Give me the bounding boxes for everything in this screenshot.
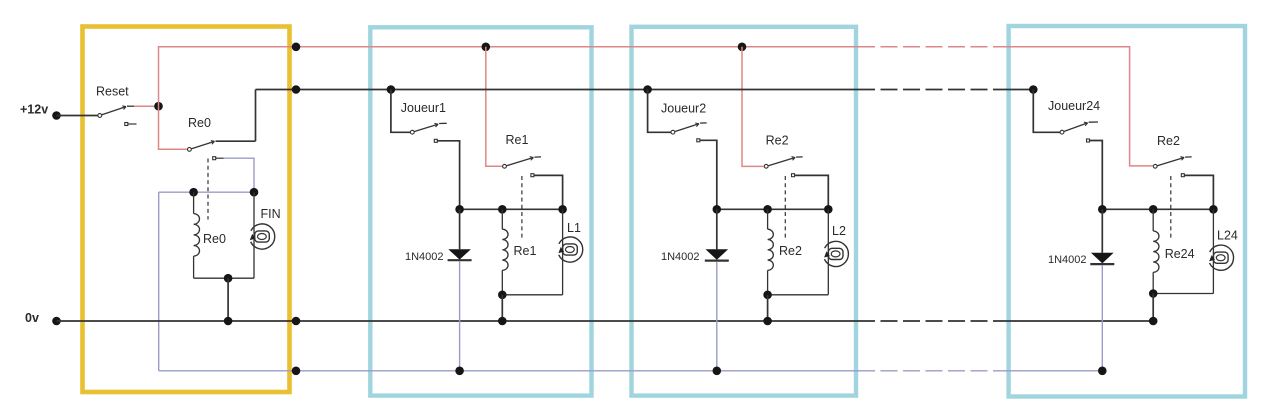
svg-text:Reset: Reset <box>96 85 129 99</box>
wire Re2 contact to lamp branch <box>1184 175 1213 209</box>
wire blue Re0 contact link <box>224 158 255 192</box>
wire loop top bar Joueur2 <box>717 208 829 210</box>
module frame box Reset/Re0 (yellow) <box>83 27 290 393</box>
lamp L24 <box>1210 245 1234 270</box>
svg-text:Re0: Re0 <box>203 232 226 246</box>
node 0v terminal <box>52 317 61 326</box>
wire black rail dashed <box>858 89 1006 91</box>
wire FIN lamp branch <box>253 192 255 278</box>
switch Reset <box>98 114 102 118</box>
node 0v junction Re0 <box>224 317 233 326</box>
wire lamp branch L1 <box>562 209 564 294</box>
node lamp top Joueur24 <box>1209 205 1218 214</box>
switch relay contact Re1 <box>503 164 507 168</box>
node FIN lamp top <box>250 188 259 197</box>
wire red +12v rail into Joueur24 box <box>1006 47 1153 166</box>
node loop bottom Joueur2 <box>763 291 772 300</box>
node coil top Joueur2 <box>763 205 772 214</box>
wire Joueur1 switch feed <box>391 90 411 133</box>
wire loop bottom bar Joueur24 <box>1153 293 1213 295</box>
wire coil to 0v Joueur2 <box>767 295 769 321</box>
node loop bottom Joueur24 <box>1149 289 1158 298</box>
wire blue bottom bus solid <box>159 370 858 372</box>
wire red +12v rail solid <box>158 46 858 48</box>
svg-text:+12v: +12v <box>20 103 48 117</box>
wire black rail into Joueur24 box <box>1006 89 1033 91</box>
svg-text:Re2: Re2 <box>766 134 789 148</box>
wire Joueur2 contact to diode branch <box>700 140 717 209</box>
node black rail junction x296 <box>292 85 301 94</box>
module frame box Joueur1 (cyan) <box>370 27 591 395</box>
diode 1N4002 Joueur1 <box>459 209 461 249</box>
node Re0 coil top <box>189 188 198 197</box>
wire coil to 0v Joueur24 <box>1152 294 1154 322</box>
node coil top Joueur1 <box>498 205 507 214</box>
wire red +12v rail dashed <box>858 46 1006 48</box>
node diode to blue bus Joueur2 <box>713 367 722 376</box>
node loop bottom Joueur1 <box>498 291 507 300</box>
wire Joueur2 switch feed <box>648 90 671 133</box>
mechanical link dashed Re0 <box>207 159 209 220</box>
wire blue bottom bus into Joueur24 box <box>1006 370 1102 372</box>
node diode top Joueur24 <box>1098 205 1107 214</box>
svg-text:Re2: Re2 <box>1157 134 1180 148</box>
switch Joueur1 <box>410 130 414 134</box>
wire Re1 contact to lamp branch <box>534 175 563 209</box>
svg-text:1N4002: 1N4002 <box>1048 254 1087 266</box>
switch relay contact Re2 <box>764 164 768 168</box>
node black rail junction Joueur1 <box>387 85 396 94</box>
lamp L1 <box>559 237 583 262</box>
relay coil Re1 <box>501 209 503 229</box>
svg-text:Re0: Re0 <box>188 116 211 130</box>
node lamp top Joueur2 <box>824 205 833 214</box>
module frame box Joueur2 (cyan) <box>632 27 857 396</box>
wire loop top bar Joueur1 <box>460 208 563 210</box>
wire Joueur24 switch feed <box>1033 90 1060 133</box>
wire +12v to Reset <box>57 115 99 117</box>
mechanical link dashed Re2 <box>784 176 786 241</box>
wire loop top bar Joueur24 <box>1102 208 1213 210</box>
wire red riser to +12v rail <box>158 47 160 106</box>
node diode top Joueur1 <box>455 205 464 214</box>
node blue bus junction x296 <box>292 367 301 376</box>
wire Re0 loop to 0v <box>227 278 229 321</box>
node 0v junction x296 <box>292 317 301 326</box>
switch relay contact Re2 <box>1153 164 1157 168</box>
node diode to blue bus Joueur24 <box>1098 367 1107 376</box>
wire black +12v switched rail solid <box>256 89 859 91</box>
wire red drop to Re2 <box>742 47 764 167</box>
module frame box Joueur24 (cyan) <box>1009 26 1245 397</box>
wire Joueur24 contact to diode branch <box>1090 141 1103 210</box>
svg-text:Re1: Re1 <box>514 244 537 258</box>
svg-text:Joueur24: Joueur24 <box>1048 99 1100 113</box>
wire 0v rail into Joueur24 box <box>1006 320 1153 322</box>
svg-text:1N4002: 1N4002 <box>661 251 700 263</box>
node +12v terminal <box>52 111 61 120</box>
diode 1N4002 Joueur2 <box>716 209 718 249</box>
switch Joueur24 <box>1060 130 1064 134</box>
relay coil Re24 <box>1152 209 1154 231</box>
svg-text:1N4002: 1N4002 <box>405 251 444 263</box>
wire blue bottom bus dashed <box>858 370 1006 372</box>
wire red drop to Re0 <box>159 106 188 149</box>
wire lamp branch L24 <box>1212 209 1214 293</box>
svg-text:L1: L1 <box>567 221 581 235</box>
svg-text:Re1: Re1 <box>506 133 529 147</box>
node red rail junction Joueur1 <box>482 43 491 52</box>
switch relay contact Re0 <box>188 148 192 152</box>
wire Re2 contact to lamp branch <box>795 175 829 209</box>
wire blue coil top bar <box>159 191 254 193</box>
relay coil Re0 <box>193 192 195 213</box>
svg-text:0v: 0v <box>25 311 39 325</box>
diode 1N4002 Joueur24 <box>1101 209 1103 253</box>
node 0v junction Joueur2 <box>763 317 772 326</box>
node black rail junction Joueur24 <box>1029 85 1038 94</box>
node red rail junction Joueur2 <box>738 43 747 52</box>
svg-text:Joueur2: Joueur2 <box>661 102 706 116</box>
node Re0 loop bottom <box>224 274 233 283</box>
wire loop bottom bar Joueur2 <box>768 294 829 296</box>
node black rail junction Joueur2 <box>643 85 652 94</box>
node Reset output junction <box>154 102 163 111</box>
node diode to blue bus Joueur1 <box>455 367 464 376</box>
wire red drop to Re1 <box>486 47 502 167</box>
node diode top Joueur2 <box>713 205 722 214</box>
wire Re0 contact stub <box>216 157 224 159</box>
wire 0v rail solid <box>57 320 859 322</box>
wire coil to 0v Joueur1 <box>501 295 503 321</box>
wire diode cathode to blue bus Joueur2 <box>716 262 718 371</box>
lamp FIN <box>251 224 275 249</box>
svg-text:L24: L24 <box>1217 229 1238 243</box>
node red rail junction x296 <box>292 43 301 52</box>
wire 0v rail dashed <box>858 320 1006 322</box>
wire loop bottom bar Joueur1 <box>502 294 562 296</box>
wire Re0 to black rail <box>216 140 256 142</box>
wire Re0 loop bottom <box>194 277 254 279</box>
wire lamp branch L2 <box>827 209 829 294</box>
mechanical link dashed Re1 <box>521 176 523 241</box>
node lamp top Joueur1 <box>558 205 567 214</box>
svg-text:Re2: Re2 <box>779 244 802 258</box>
node 0v junction Joueur24 <box>1149 317 1158 326</box>
svg-text:Joueur1: Joueur1 <box>401 101 446 115</box>
svg-text:L2: L2 <box>832 224 846 238</box>
relay coil Re2 <box>767 209 769 229</box>
node 0v junction Joueur1 <box>498 317 507 326</box>
wire blue left drop <box>158 192 160 371</box>
lamp L2 <box>824 241 848 266</box>
wire diode cathode to blue bus Joueur24 <box>1101 265 1103 371</box>
svg-text:Re24: Re24 <box>1165 247 1195 261</box>
mechanical link dashed Re2 <box>1170 176 1172 241</box>
node coil top Joueur24 <box>1149 205 1158 214</box>
wire Joueur1 contact to diode branch <box>437 141 459 210</box>
svg-text:FIN: FIN <box>261 207 281 221</box>
switch Joueur2 <box>671 130 675 134</box>
wire diode cathode to blue bus Joueur1 <box>459 261 461 371</box>
